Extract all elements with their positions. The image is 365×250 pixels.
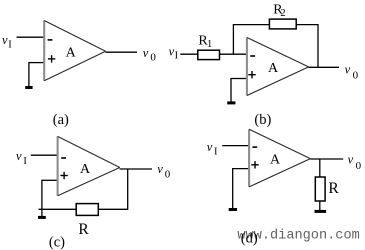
svg-text:I: I [23,156,27,167]
svg-text:I: I [175,51,179,62]
svg-text:R: R [328,180,339,197]
svg-text:I: I [8,39,12,50]
svg-text:0: 0 [150,51,156,63]
svg-text:v: v [207,140,213,154]
svg-text:2: 2 [280,8,285,19]
svg-text:0: 0 [353,69,359,81]
svg-text:v: v [16,149,22,163]
svg-text:1: 1 [207,39,212,50]
svg-text:0: 0 [356,160,362,172]
svg-text:I: I [214,147,218,158]
svg-text:v: v [345,63,351,77]
svg-text:v: v [157,162,163,176]
svg-text:(c): (c) [49,234,65,250]
svg-text:A: A [80,162,91,177]
svg-text:A: A [66,45,77,60]
svg-text:0: 0 [165,168,171,180]
svg-text:(b): (b) [254,112,271,128]
svg-text:R: R [78,221,89,238]
svg-text:v: v [143,46,149,60]
svg-text:A: A [268,61,279,76]
svg-text:v: v [2,33,8,47]
svg-text:(a): (a) [53,112,69,128]
svg-text:(d): (d) [241,230,258,246]
svg-text:v: v [348,153,354,167]
svg-text:A: A [270,153,281,168]
